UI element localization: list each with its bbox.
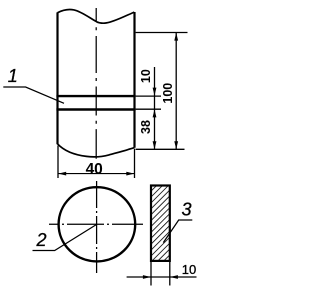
groove bottom edge: [56, 108, 135, 110]
shaft centerline: [95, 8, 97, 159]
svg-text:2: 2: [36, 230, 47, 250]
svg-text:10: 10: [182, 262, 196, 277]
dimension line 10/38 column: [154, 67, 156, 149]
groove top edge: [56, 95, 135, 97]
dimension line 40: [58, 173, 135, 175]
svg-text:38: 38: [139, 120, 153, 134]
label 3 leader: [163, 220, 192, 243]
circle vertical centerline: [96, 181, 98, 273]
top break line: [58, 9, 135, 23]
dimension line 10 bottom: [127, 276, 197, 278]
svg-text:40: 40: [86, 161, 103, 178]
extension line top (for 100): [136, 32, 188, 34]
extension line 10 bottom right: [169, 262, 171, 286]
svg-text:100: 100: [161, 83, 175, 104]
circle horizontal centerline: [49, 223, 143, 225]
extension line 10 bottom left: [150, 262, 152, 286]
label 2 leader: [33, 225, 97, 251]
shaft right edge: [133, 12, 135, 148]
extension line 40 right: [134, 149, 136, 178]
dimension line 100: [175, 33, 177, 149]
label 1 leader: [3, 87, 64, 103]
extension line groove top: [136, 95, 161, 97]
shaft left edge: [56, 12, 58, 144]
svg-text:1: 1: [8, 66, 18, 86]
svg-text:3: 3: [182, 200, 192, 220]
section rectangle with hatch: [151, 186, 170, 261]
circle view outline: [59, 187, 136, 261]
bottom break line: [58, 144, 135, 157]
extension line 40 left: [57, 146, 59, 179]
extension line shaft bottom: [136, 148, 185, 150]
svg-text:10: 10: [139, 69, 153, 83]
extension line groove bottom: [136, 108, 161, 110]
